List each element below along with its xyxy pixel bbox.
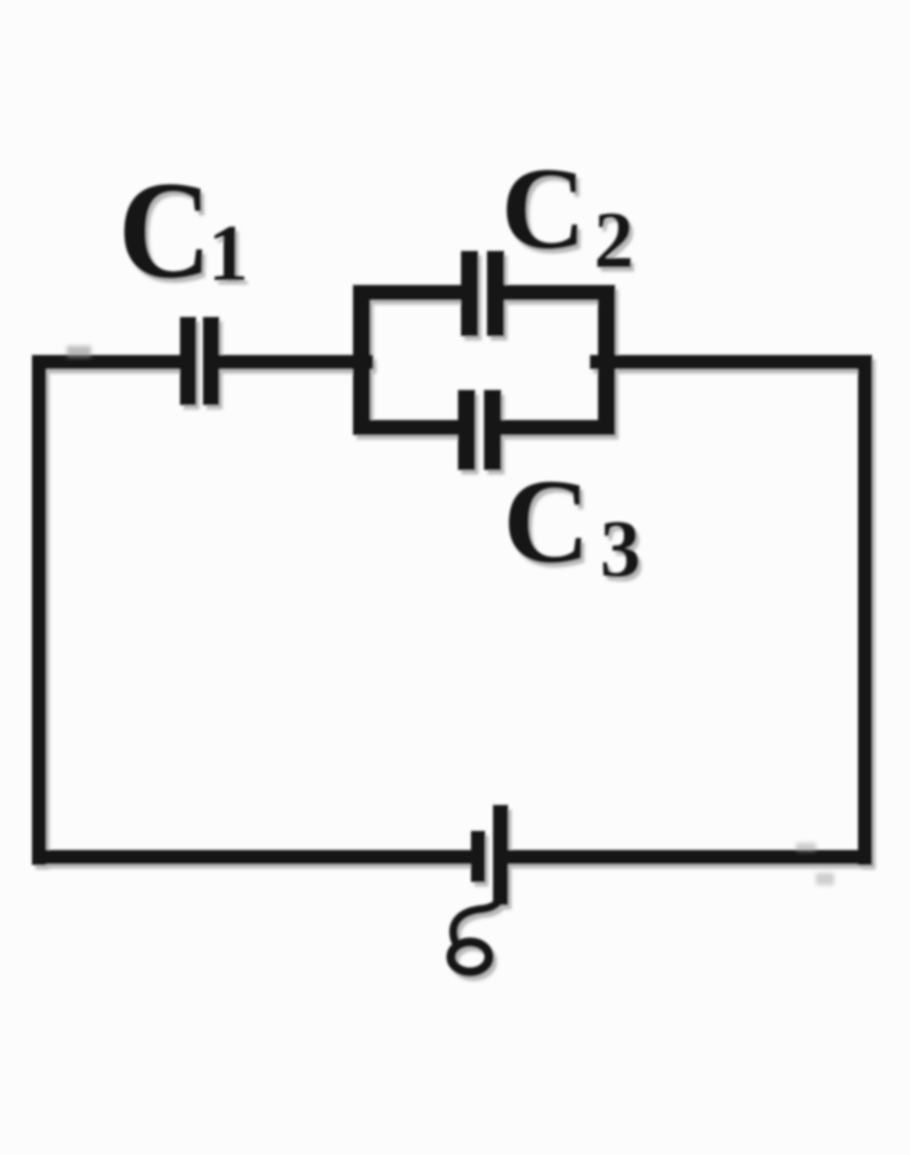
wire box to top-right corner xyxy=(590,355,872,369)
svg-text:1: 1 xyxy=(208,208,249,298)
svg-text:3: 3 xyxy=(600,503,641,594)
smudge artifacts (decorative) xyxy=(67,346,834,885)
wire box top-right (C2 to right side) xyxy=(504,285,615,300)
battery (EMF source) xyxy=(471,805,508,905)
label C3 xyxy=(503,455,641,594)
svg-text:C: C xyxy=(501,143,586,274)
svg-text:C: C xyxy=(118,153,212,308)
wire box bottom-right (C3 to right side) xyxy=(501,420,615,435)
capacitor C2 xyxy=(461,251,504,336)
wire left vertical of main loop xyxy=(32,355,46,865)
wire top-left segment (corner to C1) xyxy=(32,355,182,369)
label C2 xyxy=(501,143,634,285)
label EMF (script delta) of battery xyxy=(451,889,502,972)
capacitor C3 xyxy=(458,390,501,470)
wire box bottom-left (to C3) xyxy=(353,420,459,435)
svg-text:C: C xyxy=(503,455,590,589)
capacitor C1 xyxy=(180,317,219,405)
label C1 xyxy=(118,153,249,308)
wire battery to bottom-right corner xyxy=(508,850,872,864)
wire C1 to parallel box xyxy=(219,355,373,369)
wire box top-left (to C2) xyxy=(353,285,463,300)
svg-text:2: 2 xyxy=(594,197,634,285)
wire bottom-left segment (corner to battery) xyxy=(32,850,471,864)
node right junction of parallel box xyxy=(598,285,615,435)
node left junction of parallel box xyxy=(353,285,370,435)
wire right vertical of main loop xyxy=(858,355,872,865)
